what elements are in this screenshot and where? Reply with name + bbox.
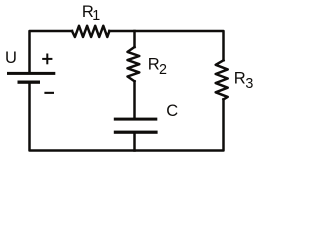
wire top-left segment <box>30 31 73 72</box>
resistor R1 <box>72 26 109 37</box>
svg-text:U: U <box>5 49 17 67</box>
resistor R2 <box>128 47 140 81</box>
wire middle branch lower <box>133 81 136 118</box>
wire capacitor to bottom <box>133 134 136 151</box>
battery U top plate <box>7 72 55 75</box>
wire middle branch upper <box>133 31 136 47</box>
battery minus sign <box>44 92 54 94</box>
battery plus sign <box>42 58 52 60</box>
capacitor C bottom plate <box>114 131 158 134</box>
svg-text:C: C <box>166 102 178 120</box>
resistor R3 <box>216 60 228 99</box>
capacitor C top plate <box>114 118 158 121</box>
battery U bottom plate <box>18 81 41 84</box>
wire right-bottom segment <box>30 84 224 151</box>
wire top-right segment <box>109 31 223 60</box>
